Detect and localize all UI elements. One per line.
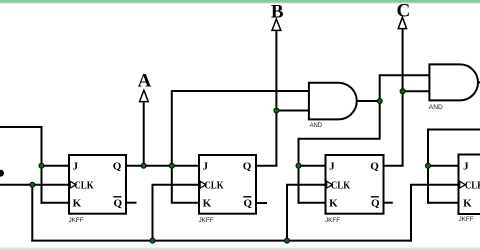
wire K1 branch (42, 202, 70, 204)
wire clock drop to bus (31, 185, 33, 241)
junction J/K tie at FF1 (39, 163, 44, 168)
svg-text:JKFF: JKFF (69, 217, 84, 224)
wire Qbar2 stub (256, 202, 266, 204)
svg-text:Q: Q (244, 197, 253, 209)
output arrow C (398, 17, 406, 28)
junction FF3 J/K feed (296, 163, 301, 168)
output arrow B (272, 19, 281, 30)
wire Qbar3 stub (384, 202, 392, 204)
wire CLK4 riser (411, 185, 458, 241)
flip-flop U4 box (cut at right edge) (459, 155, 480, 223)
wire Q3 up to C (384, 29, 403, 166)
wire Q1 down to K2 (172, 166, 199, 203)
svg-text:Q: Q (243, 161, 252, 173)
wire AND2 feedback from right edge to FF4 J/K (428, 130, 480, 203)
wire AND1 output (357, 100, 380, 102)
wire Qbar1 stub (126, 202, 136, 204)
svg-text:K: K (329, 197, 338, 209)
svg-text:AND: AND (310, 122, 323, 129)
junction bus tap CLK2 (150, 238, 155, 243)
svg-text:Q: Q (371, 197, 380, 209)
svg-text:B: B (271, 2, 284, 23)
svg-text:J: J (73, 161, 79, 173)
wire CLK3 riser (287, 185, 325, 241)
junction clock tap FF1 (30, 182, 35, 187)
junction C tap to AND2 (400, 89, 405, 94)
wire B tap to AND1 lower input (276, 110, 309, 112)
svg-text:A: A (138, 70, 152, 91)
wire K3 branch (299, 202, 326, 204)
wire AND2 output stub (478, 81, 480, 83)
svg-text:CLK: CLK (331, 179, 351, 191)
wire C tap to AND2 lower input (403, 90, 430, 92)
svg-text:C: C (397, 1, 411, 22)
U2 CLK input triangle (200, 181, 206, 188)
junction AND1 output node (377, 99, 382, 104)
svg-text:JKFF: JKFF (325, 217, 340, 224)
svg-text:Q: Q (113, 161, 122, 173)
wire K4 branch (428, 202, 458, 204)
svg-text:Q: Q (370, 161, 379, 173)
wire JK-tie input from left edge (0, 127, 42, 203)
svg-text:JKFF: JKFF (459, 216, 474, 223)
input terminal dot at left edge (0, 170, 4, 177)
svg-text:K: K (203, 197, 212, 209)
svg-text:JKFF: JKFF (199, 217, 214, 224)
wire clock input CLK1 (0, 184, 70, 186)
svg-text:CLK: CLK (204, 179, 224, 191)
junction Q1 feed tap (169, 163, 174, 168)
wire AND1 out down to FF3 J/K (299, 101, 380, 203)
junction FF4 J/K feed (426, 163, 431, 168)
U3 CLK input triangle (327, 181, 333, 188)
U1 CLK input triangle (70, 181, 76, 188)
wire Q1 to J2 (126, 165, 199, 167)
flip-flop U2 box (199, 155, 257, 224)
svg-text:CLK: CLK (74, 179, 94, 191)
svg-text:J: J (329, 161, 335, 173)
AND gate G2 (429, 64, 478, 110)
wire J1 branch (42, 165, 70, 167)
U4 CLK input triangle (460, 181, 466, 188)
svg-text:J: J (203, 161, 209, 173)
svg-text:K: K (463, 197, 472, 209)
flip-flop U3 box (325, 155, 384, 224)
AND gate G1 (309, 83, 357, 129)
wire J4 branch (428, 165, 458, 167)
svg-text:Q: Q (114, 197, 123, 209)
svg-text:K: K (73, 197, 82, 209)
wire A tap riser (143, 102, 145, 166)
svg-text:J: J (463, 161, 469, 173)
wire Q2 up to B (256, 30, 276, 166)
wire J3 branch (299, 165, 326, 167)
top green border band (0, 0, 480, 4)
wire AND1 out up to AND2 upper input (380, 75, 430, 101)
svg-text:CLK: CLK (465, 179, 480, 191)
wire Q1 up to AND1 upper input (172, 91, 309, 166)
junction bus tap CLK3 (285, 238, 290, 243)
output arrow A (140, 90, 149, 101)
svg-text:AND: AND (429, 104, 443, 111)
bottom green border band (0, 247, 480, 250)
wire clock bus (32, 240, 411, 242)
junction B tap to AND1 (274, 108, 279, 113)
junction A tap (141, 163, 146, 168)
wire CLK2 riser (153, 185, 199, 241)
flip-flop U1 box (69, 155, 127, 224)
